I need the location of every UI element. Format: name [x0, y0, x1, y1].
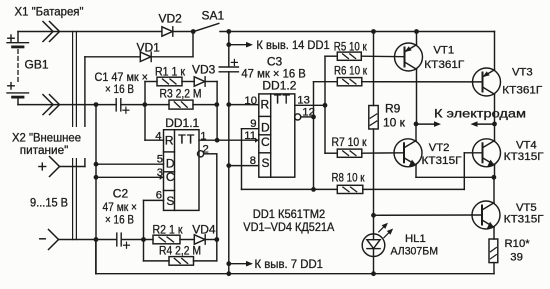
svg-text:R4 2,2 М: R4 2,2 М: [159, 243, 201, 257]
svg-text:S: S: [166, 194, 174, 208]
svg-text:13: 13: [297, 94, 310, 106]
svg-text:DD1 К561ТМ2: DD1 К561ТМ2: [253, 207, 326, 221]
svg-text:C: C: [166, 170, 175, 184]
svg-text:6: 6: [156, 190, 162, 202]
svg-text:HL1: HL1: [405, 233, 426, 245]
svg-text:S: S: [261, 156, 269, 170]
svg-text:8: 8: [250, 155, 256, 167]
svg-text:VT4: VT4: [516, 139, 537, 151]
svg-text:10: 10: [244, 95, 257, 107]
svg-text:VT1: VT1: [433, 44, 454, 56]
svg-text:КТ361Г: КТ361Г: [502, 85, 542, 97]
svg-text:× 16 В: × 16 В: [105, 82, 134, 96]
svg-text:4: 4: [155, 131, 161, 143]
svg-text:R8 10 к: R8 10 к: [332, 171, 366, 185]
svg-text:R7 10 к: R7 10 к: [332, 135, 368, 149]
svg-text:C2: C2: [113, 186, 129, 200]
svg-text:R1 1 к: R1 1 к: [155, 64, 186, 78]
svg-text:DD1.1: DD1.1: [165, 116, 199, 130]
svg-text:ТТ: ТТ: [178, 133, 195, 147]
svg-text:КТ315Г: КТ315Г: [504, 214, 544, 226]
svg-text:R2 1 к: R2 1 к: [153, 222, 184, 236]
svg-text:R5 10 к: R5 10 к: [334, 39, 368, 53]
svg-text:питание": питание": [20, 143, 69, 157]
svg-text:VD4: VD4: [192, 222, 216, 236]
svg-text:VT3: VT3: [512, 67, 533, 79]
svg-text:VD1–VD4 КД521А: VD1–VD4 КД521А: [243, 220, 334, 234]
svg-text:К выв. 7 DD1: К выв. 7 DD1: [255, 257, 324, 271]
svg-text:VD3: VD3: [192, 63, 216, 77]
svg-text:1: 1: [200, 130, 206, 142]
svg-text:ТТ: ТТ: [274, 92, 291, 106]
svg-text:R3 2,2 М: R3 2,2 М: [160, 86, 202, 100]
svg-text:R: R: [260, 98, 269, 112]
svg-text:10 к: 10 к: [383, 115, 406, 129]
svg-text:КТ361Г: КТ361Г: [424, 59, 464, 71]
svg-text:VT5: VT5: [516, 202, 537, 214]
svg-text:АЛ307БМ: АЛ307БМ: [391, 246, 439, 258]
svg-text:VD2: VD2: [159, 11, 183, 25]
svg-text:D: D: [166, 157, 175, 171]
svg-text:9: 9: [250, 118, 256, 130]
svg-text:КТ315Г: КТ315Г: [422, 155, 462, 167]
svg-text:11: 11: [244, 130, 256, 142]
svg-text:X1 "Батарея": X1 "Батарея": [15, 5, 84, 19]
svg-text:SA1: SA1: [202, 9, 225, 23]
svg-text:К электродам: К электродам: [434, 106, 526, 120]
svg-text:2: 2: [203, 143, 209, 155]
svg-text:VT2: VT2: [429, 142, 450, 154]
svg-text:GB1: GB1: [25, 57, 49, 71]
svg-text:R6 10 к: R6 10 к: [334, 64, 368, 78]
svg-text:5: 5: [157, 153, 163, 165]
svg-text:C: C: [261, 135, 270, 149]
svg-text:× 16 В: × 16 В: [105, 212, 134, 226]
svg-text:R: R: [165, 134, 174, 148]
svg-text:39: 39: [510, 251, 523, 263]
svg-text:R10*: R10*: [505, 238, 531, 250]
svg-text:R9: R9: [385, 101, 401, 115]
svg-text:VD1: VD1: [137, 40, 161, 54]
svg-text:К выв. 14 DD1: К выв. 14 DD1: [256, 38, 330, 52]
svg-text:D: D: [261, 121, 270, 135]
svg-text:DD1.2: DD1.2: [262, 78, 296, 92]
svg-text:КТ315Г: КТ315Г: [504, 151, 544, 163]
svg-text:9...15 В: 9...15 В: [30, 196, 68, 210]
